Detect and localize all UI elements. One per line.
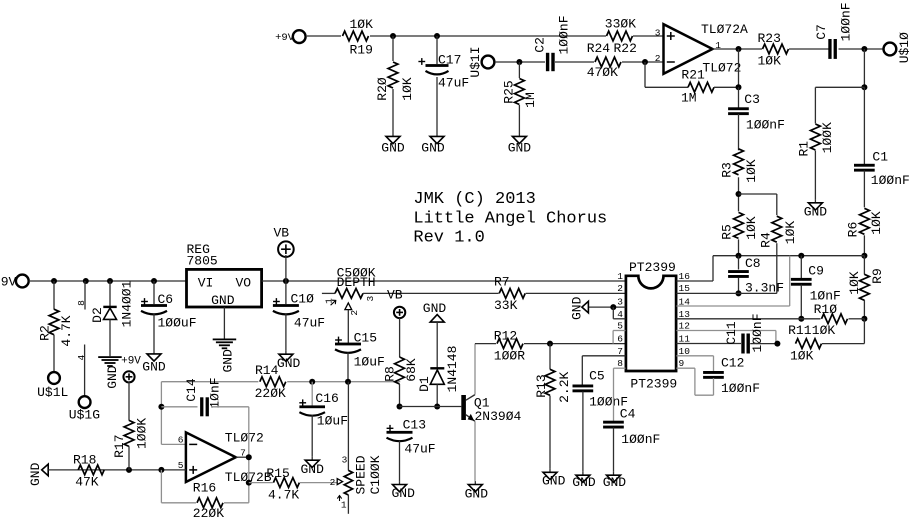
svg-text:GND: GND [391, 486, 415, 501]
svg-text:R7: R7 [494, 275, 510, 290]
svg-text:1M: 1M [523, 92, 538, 108]
svg-text:GND: GND [421, 141, 445, 156]
svg-text:1ØK: 1ØK [744, 216, 759, 240]
svg-text:GND: GND [465, 487, 489, 502]
svg-text:1ØK: 1ØK [744, 159, 759, 183]
svg-text:U$1Ø: U$1Ø [897, 32, 912, 63]
svg-text:D1: D1 [417, 376, 432, 392]
svg-text:1M: 1M [681, 90, 697, 105]
svg-text:1ØØnF: 1ØØnF [839, 2, 854, 41]
svg-text:GND: GND [572, 475, 596, 490]
svg-text:GND: GND [603, 475, 627, 490]
svg-text:C13: C13 [403, 418, 426, 433]
svg-text:1: 1 [341, 500, 347, 511]
svg-text:R13: R13 [534, 374, 549, 397]
svg-text:R22: R22 [614, 41, 637, 56]
svg-text:R18: R18 [73, 452, 96, 467]
svg-text:47uF: 47uF [404, 441, 435, 456]
svg-text:R2: R2 [37, 325, 52, 341]
svg-text:R2Ø: R2Ø [375, 77, 390, 101]
svg-text:4.7K: 4.7K [268, 488, 299, 503]
svg-text:15: 15 [679, 283, 691, 294]
svg-text:TLØ72: TLØ72 [702, 61, 741, 76]
svg-text:1: 1 [617, 271, 623, 282]
svg-text:1ØuF: 1ØuF [354, 354, 385, 369]
svg-text:D2: D2 [90, 307, 105, 323]
svg-text:TLØ72A: TLØ72A [701, 22, 748, 37]
svg-text:1ØK: 1ØK [783, 221, 798, 245]
svg-text:C1: C1 [872, 150, 888, 165]
svg-text:R5: R5 [719, 224, 734, 240]
svg-text:1N4ØØ1: 1N4ØØ1 [120, 280, 135, 327]
svg-text:33ØK: 33ØK [605, 17, 636, 32]
svg-text:C14: C14 [184, 378, 199, 402]
svg-text:R19: R19 [350, 43, 373, 58]
svg-text:2: 2 [330, 477, 336, 488]
svg-text:47uF: 47uF [294, 316, 325, 331]
svg-text:U$1G: U$1G [69, 408, 100, 423]
svg-text:U$1I: U$1I [468, 46, 483, 77]
svg-text:R21: R21 [681, 67, 705, 82]
svg-text:GND: GND [28, 462, 43, 486]
svg-text:Little Angel Chorus: Little Angel Chorus [413, 210, 607, 229]
svg-text:GND: GND [142, 360, 166, 375]
svg-text:3: 3 [365, 295, 376, 301]
svg-text:2: 2 [655, 53, 661, 64]
svg-text:1ØØnF: 1ØØnF [746, 118, 785, 133]
svg-text:SPEED: SPEED [353, 455, 368, 494]
svg-text:C5: C5 [589, 369, 605, 384]
svg-text:R1: R1 [796, 141, 811, 157]
svg-text:5: 5 [178, 460, 184, 471]
svg-text:GND: GND [277, 356, 301, 371]
svg-text:C16: C16 [315, 391, 338, 406]
svg-text:1ØØK: 1ØØK [134, 418, 149, 449]
svg-text:GND: GND [105, 365, 120, 389]
svg-text:47uF: 47uF [438, 76, 469, 91]
svg-text:R23: R23 [758, 31, 781, 46]
svg-text:4.7K: 4.7K [59, 315, 74, 346]
svg-text:1ØØnF: 1ØØnF [621, 432, 660, 447]
svg-text:2.2K: 2.2K [557, 372, 572, 403]
svg-text:R1Ø: R1Ø [814, 302, 838, 317]
svg-text:R11: R11 [788, 323, 812, 338]
svg-text:GND: GND [211, 293, 235, 308]
svg-text:47ØK: 47ØK [587, 65, 618, 80]
svg-text:3: 3 [342, 455, 348, 466]
svg-text:22ØK: 22ØK [255, 386, 286, 401]
svg-text:1ØK: 1ØK [350, 17, 374, 32]
svg-text:1ØØnF: 1ØØnF [721, 381, 760, 396]
svg-text:U$1L: U$1L [37, 385, 68, 400]
svg-text:1ØK: 1ØK [812, 323, 836, 338]
svg-text:1ØØnF: 1ØØnF [750, 313, 765, 352]
svg-text:+9V: +9V [275, 32, 295, 44]
svg-text:GND: GND [542, 473, 566, 488]
svg-text:C2: C2 [532, 37, 547, 53]
svg-text:VB: VB [387, 288, 403, 303]
svg-text:C1ØØK: C1ØØK [368, 455, 383, 494]
svg-text:R24: R24 [587, 41, 611, 56]
svg-text:R4: R4 [758, 232, 773, 248]
svg-text:GND: GND [423, 301, 447, 316]
svg-text:1ØØK: 1ØØK [820, 122, 835, 153]
svg-text:R9: R9 [870, 268, 885, 284]
svg-text:1ØK: 1ØK [758, 54, 782, 69]
svg-text:4: 4 [76, 355, 87, 361]
svg-text:C4: C4 [620, 406, 636, 421]
svg-text:C15: C15 [354, 331, 377, 346]
svg-text:R12: R12 [494, 328, 517, 343]
svg-text:PT2399: PT2399 [630, 376, 677, 391]
svg-text:6: 6 [178, 434, 184, 445]
svg-text:1ØØuF: 1ØØuF [158, 316, 197, 331]
svg-text:GND: GND [570, 296, 585, 320]
svg-text:PT2399: PT2399 [629, 260, 676, 275]
svg-text:3: 3 [617, 297, 623, 308]
svg-text:22ØK: 22ØK [193, 506, 224, 521]
svg-text:VB: VB [273, 226, 289, 241]
svg-text:47K: 47K [75, 475, 99, 490]
svg-text:1ØK: 1ØK [400, 77, 415, 101]
svg-text:R14: R14 [255, 363, 279, 378]
svg-text:C1Ø: C1Ø [291, 292, 315, 307]
svg-text:1ØØnF: 1ØØnF [557, 15, 572, 54]
svg-text:C12: C12 [721, 356, 744, 371]
svg-text:1ØK: 1ØK [869, 211, 884, 235]
svg-text:C9: C9 [808, 263, 824, 278]
svg-text:GND: GND [508, 141, 532, 156]
svg-text:C11: C11 [724, 321, 739, 345]
svg-text:+9V: +9V [121, 356, 141, 368]
svg-text:R8: R8 [383, 366, 398, 382]
svg-text:R16: R16 [193, 480, 216, 495]
svg-text:JMK (C) 2013: JMK (C) 2013 [413, 190, 535, 209]
svg-text:GND: GND [300, 462, 324, 477]
svg-text:R6: R6 [845, 222, 860, 238]
svg-text:GND: GND [381, 141, 405, 156]
svg-text:C8: C8 [745, 256, 761, 271]
svg-text:Rev 1.0: Rev 1.0 [413, 229, 484, 248]
svg-text:GND: GND [221, 349, 236, 373]
svg-text:TLØ72: TLØ72 [225, 430, 264, 445]
svg-text:R17: R17 [112, 434, 127, 457]
svg-text:2: 2 [617, 283, 623, 294]
svg-text:C17: C17 [438, 53, 461, 68]
svg-text:7805: 7805 [187, 254, 218, 269]
svg-text:1ØuF: 1ØuF [317, 414, 348, 429]
svg-text:1ØnF: 1ØnF [208, 377, 223, 408]
svg-text:33K: 33K [494, 298, 518, 313]
svg-text:GND: GND [804, 204, 828, 219]
svg-text:1ØØR: 1ØØR [494, 349, 525, 364]
svg-text:2N39Ø4: 2N39Ø4 [475, 409, 522, 424]
svg-text:1ØØnF: 1ØØnF [871, 173, 910, 188]
svg-text:C3: C3 [744, 92, 760, 107]
svg-text:6: 6 [617, 334, 623, 345]
svg-text:R15: R15 [266, 466, 289, 481]
svg-text:2: 2 [349, 310, 360, 316]
svg-text:3: 3 [655, 27, 661, 38]
svg-text:VO: VO [235, 275, 251, 290]
svg-text:+9V: +9V [0, 275, 16, 290]
svg-text:R25: R25 [502, 80, 517, 103]
svg-text:1ØK: 1ØK [790, 349, 814, 364]
svg-text:8: 8 [76, 300, 87, 306]
svg-text:R3: R3 [719, 162, 734, 178]
svg-text:C7: C7 [814, 24, 829, 40]
svg-text:VI: VI [198, 275, 214, 290]
svg-text:1N4148: 1N4148 [445, 346, 460, 393]
svg-text:1ØK: 1ØK [847, 271, 862, 295]
svg-text:C6: C6 [158, 292, 174, 307]
